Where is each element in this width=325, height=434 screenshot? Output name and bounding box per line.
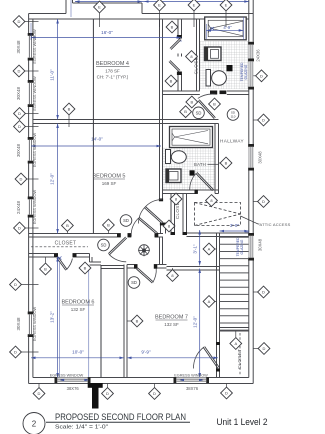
svg-text:BATH: BATH: [194, 162, 206, 167]
keynote diamond B: [63, 103, 75, 115]
egress window 38X76 bedroom 6: [55, 377, 91, 383]
door: bath 2: [190, 173, 197, 190]
blue tick at closet door: [58, 257, 62, 260]
bath 1 toilet: [206, 70, 211, 87]
egress window 30X48 bedroom 5 upper: [28, 137, 34, 164]
door: bedroom 7 entry: [153, 269, 156, 283]
door leaf bedroom 7: [136, 268, 153, 283]
keynote diamond B: [62, 220, 74, 232]
interior wall H: stairs south / closet north: [220, 327, 249, 329]
interior wall B: bedroom 4/5 divider + bath2 north: [33, 119, 219, 121]
svg-text:30X48: 30X48: [16, 143, 21, 157]
keynote diamond D: [258, 196, 270, 208]
keynote diamond D: [10, 279, 22, 291]
svg-text:D: D: [18, 226, 21, 231]
svg-text:E: E: [193, 3, 196, 8]
door leaf bath 2: [196, 172, 214, 190]
fan/light combo circle hallway: [227, 109, 239, 121]
svg-text:A: A: [208, 247, 211, 252]
interior wall A stub between doors: [160, 223, 162, 234]
svg-text:169 SF: 169 SF: [102, 181, 117, 186]
svg-text:D: D: [260, 73, 263, 78]
bath 1 tiled floor: [200, 41, 249, 89]
door leaf bedroom 6: [108, 237, 126, 255]
interior walls J: bath 2 east + south: [214, 124, 216, 194]
keynote diamond B: [103, 219, 115, 231]
interior walls K: top closet strip: [177, 19, 179, 91]
keynote diamond D: [14, 108, 26, 120]
door: hall at closet (swings up-left): [131, 218, 138, 237]
svg-text:B: B: [190, 100, 193, 105]
tempered window bath 1: [248, 59, 254, 90]
bath 1 tub dimension 4'-9": [207, 29, 244, 31]
interior wall A lower: y237-265: [159, 237, 161, 265]
keynote diamond D: [15, 173, 27, 185]
svg-text:D: D: [106, 391, 109, 396]
svg-text:132 SF: 132 SF: [164, 322, 179, 327]
svg-text:178 SF: 178 SF: [105, 69, 120, 74]
section mark black L: [88, 383, 103, 388]
svg-text:EGRESS WINDOW: EGRESS WINDOW: [50, 373, 84, 377]
smoke detector SD: [128, 277, 140, 289]
svg-text:12'-0": 12'-0": [50, 173, 55, 185]
interior wall: closet band south: [29, 253, 54, 255]
svg-text:E: E: [158, 3, 161, 8]
attic access pull-down (dashed): [195, 203, 241, 226]
svg-text:Scale: 1/4" = 1'-0": Scale: 1/4" = 1'-0": [55, 425, 108, 431]
svg-text:A: A: [208, 299, 211, 304]
svg-text:E: E: [98, 5, 101, 10]
wall opening jambs: bed7 closet door: [216, 342, 220, 345]
egress window 38X76 bedroom 7: [174, 377, 210, 383]
svg-text:GLAZING: GLAZING: [240, 239, 244, 254]
svg-text:B: B: [136, 319, 139, 324]
interior walls I: linen closet: [170, 194, 172, 236]
svg-text:10'-0": 10'-0": [72, 349, 84, 354]
keynote diamond A: [203, 243, 215, 255]
ceiling fan symbol: [138, 245, 150, 257]
svg-text:2: 2: [32, 420, 37, 429]
svg-text:SD: SD: [196, 110, 202, 115]
svg-text:38X76: 38X76: [186, 386, 199, 391]
window 24X36 bath 1 upper: [248, 42, 254, 62]
svg-text:D: D: [38, 391, 41, 396]
interior wall C: bedroom5 south / closet north: [29, 233, 117, 235]
dim 9'-9" bedroom 7 width: [127, 357, 218, 359]
svg-text:ATTIC ACCESS: ATTIC ACCESS: [260, 222, 291, 227]
svg-text:B: B: [213, 102, 216, 107]
exterior wall: left: [28, 14, 30, 384]
svg-text:B: B: [66, 223, 69, 228]
bath 1 sink vanity: [205, 47, 222, 61]
exterior wall: bottom: [29, 383, 254, 385]
svg-text:13'-2": 13'-2": [50, 311, 55, 323]
door: bedroom 6 vestibule: [109, 254, 126, 262]
svg-text:24X36: 24X36: [256, 49, 261, 62]
door leaf hallway: [198, 100, 215, 119]
svg-text:CLOSET: CLOSET: [55, 241, 77, 247]
svg-text:30X48: 30X48: [258, 151, 263, 164]
bifold door upper: [170, 38, 181, 49]
tempered window 30X48 stairs: [248, 233, 254, 261]
keynote diamond B: [79, 262, 91, 274]
svg-text:PROPOSED SECOND FLOOR PLAN: PROPOSED SECOND FLOOR PLAN: [55, 411, 186, 422]
door leaf bedroom 6 closet: [57, 257, 67, 270]
door leaf bedroom 5: [144, 207, 163, 224]
svg-text:E: E: [225, 3, 228, 8]
svg-text:EGRESS WINDOW: EGRESS WINDOW: [174, 373, 208, 377]
interior wall E: bedroom 6/7 divider: [123, 265, 125, 378]
keynote diamond 8: [167, 270, 179, 282]
interior wall F: bedroom 7 north: [127, 264, 134, 266]
dim 10'-0" bedroom 6 width: [31, 357, 124, 359]
svg-text:D: D: [153, 391, 156, 396]
bifold door lower: [169, 60, 180, 71]
bath 2 sink vanity: [166, 169, 181, 183]
title circle 2: [23, 413, 45, 434]
bath 1 bathtub: [205, 17, 247, 40]
svg-text:SD: SD: [123, 218, 129, 223]
partition line x93 (unit separation upper): [92, 19, 94, 234]
svg-text:30X48: 30X48: [16, 86, 21, 100]
exterior wall: top: [29, 13, 66, 15]
svg-text:B: B: [68, 107, 71, 112]
svg-text:24X48: 24X48: [16, 200, 21, 214]
keynote diamond B: [165, 75, 177, 87]
bath1 door threshold bars: [210, 91, 217, 95]
svg-text:9'-9": 9'-9": [141, 349, 151, 354]
smoke detector SD: [98, 239, 110, 251]
dim 12'-0" bedroom 7 height: [199, 269, 201, 378]
dim 3'-1" stairs landing: [199, 230, 201, 266]
egress window 30X48 bedroom 6: [28, 312, 34, 338]
svg-text:38X76: 38X76: [67, 386, 80, 391]
svg-text:SD: SD: [131, 280, 137, 285]
top cut dimension line: [75, 1, 249, 3]
keynote diamond B: [131, 315, 143, 327]
diamond leader lines: [25, 21, 39, 23]
svg-text:11'-0": 11'-0": [50, 69, 55, 81]
svg-text:D: D: [14, 282, 17, 287]
closet rod dashed line: [31, 246, 88, 248]
svg-text:Unit 1 Level 2: Unit 1 Level 2: [217, 417, 268, 427]
svg-text:CLOSET: CLOSET: [237, 349, 242, 369]
keynote diamond B: [166, 21, 178, 33]
svg-text:D: D: [18, 69, 21, 74]
keynote diamond E: [154, 0, 166, 11]
dim 16'-0" bedroom 4 width: [31, 37, 181, 39]
smoke detector SD: [120, 215, 132, 227]
keynote diamond D: [256, 70, 268, 82]
egress window 30X48 bedroom 4 lower: [28, 80, 34, 107]
svg-text:D: D: [263, 346, 266, 351]
svg-text:30X48: 30X48: [258, 238, 263, 251]
interior wall A: bedrooms east wall: [159, 19, 161, 201]
svg-text:B: B: [184, 109, 187, 114]
svg-text:4'-9": 4'-9": [223, 25, 232, 30]
svg-text:12'-0": 12'-0": [192, 316, 197, 328]
exterior wall: right main: [252, 0, 254, 384]
keynote diamond D: [14, 222, 26, 234]
door leaf bedroom 7 closet: [203, 347, 219, 369]
bath 2 toilet: [166, 150, 171, 164]
svg-text:EGRESS WINDOW: EGRESS WINDOW: [32, 132, 37, 167]
svg-text:EGRESS WINDOW: EGRESS WINDOW: [32, 306, 37, 341]
svg-text:D: D: [20, 177, 23, 182]
bath 1 floor drain: [227, 65, 233, 71]
egress window 30X48 bedroom 4 upper: [28, 33, 34, 61]
egress window 24X48 bedroom 5 lower: [28, 197, 34, 218]
svg-text:D: D: [262, 199, 265, 204]
dim extension stub right wall: [245, 231, 249, 233]
dim 13'-2" bedroom 6 height: [57, 257, 59, 378]
svg-text:B: B: [44, 267, 47, 272]
dim 11'-0" bedroom 4 height: [57, 19, 59, 120]
keynote diamond E: [94, 1, 106, 13]
keynote diamond 8: [186, 51, 198, 63]
svg-text:16'-0": 16'-0": [101, 30, 113, 35]
svg-text:EGRESS WINDOW: EGRESS WINDOW: [32, 76, 37, 111]
keynote diamond D: [221, 387, 233, 399]
keynote diamond A: [230, 338, 242, 350]
svg-text:B: B: [225, 161, 228, 166]
svg-text:D: D: [18, 124, 21, 129]
svg-text:EGRESS WINDOW: EGRESS WINDOW: [32, 189, 37, 224]
keynote diamond E: [220, 0, 232, 11]
svg-text:D: D: [262, 290, 265, 295]
door: bedroom 5 (swings into bedroom): [139, 200, 163, 224]
bath 2 tiled floor: [163, 148, 215, 191]
svg-text:D: D: [18, 19, 21, 24]
dim 14'-0" bedroom 5 width: [31, 145, 161, 147]
svg-text:GLAZING: GLAZING: [244, 64, 248, 79]
keynote diamond D: [258, 343, 270, 355]
svg-text:B: B: [84, 266, 87, 271]
keynote diamond D: [102, 388, 114, 400]
svg-text:3'-0": 3'-0": [230, 223, 240, 228]
keynote diamond D: [33, 388, 45, 400]
keynote diamond D: [14, 121, 26, 133]
closet K door openings: [177, 36, 182, 54]
keynote diamond D: [149, 388, 161, 400]
keynote diamond D: [258, 286, 270, 298]
interior wall: stairs north: [187, 232, 249, 234]
svg-text:HALLWAY: HALLWAY: [220, 138, 244, 143]
staircase treads: [220, 237, 249, 330]
svg-text:110: 110: [231, 115, 236, 119]
door: bedroom 7 closet: [193, 347, 204, 369]
keynote diamond D: [258, 114, 270, 126]
svg-text:3'-1": 3'-1": [192, 244, 197, 254]
keynote diamond B: [209, 98, 221, 110]
svg-text:SD: SD: [101, 243, 107, 248]
keynote diamond 8: [170, 193, 182, 205]
interior wall: bath 1 south: [163, 90, 249, 92]
svg-text:D: D: [262, 118, 265, 123]
svg-text:14'-0": 14'-0": [91, 137, 103, 142]
keynote diamond B: [186, 96, 198, 108]
keynote diamond B: [220, 157, 232, 169]
svg-text:D: D: [18, 111, 21, 116]
dim 12'-0" bedroom 5 height: [57, 124, 59, 234]
svg-text:30X48: 30X48: [16, 40, 21, 54]
keynote diamond 8: [163, 220, 175, 232]
svg-text:B: B: [170, 79, 173, 84]
bottom window dim extension lines: [59, 262, 61, 377]
keynote diamond 8: [206, 195, 218, 207]
interior wall: bedroom 6 north alcove: [89, 254, 91, 263]
door: hallway near stairs top: [198, 94, 216, 98]
keynote diamond D: [13, 65, 25, 77]
closet door (bedroom 6 closet): [66, 259, 72, 270]
interior wall G: stairs west: [216, 233, 218, 342]
keynote diamond B: [180, 106, 192, 118]
closet rod dashed: [239, 333, 241, 376]
keynote diamond E: [188, 0, 200, 11]
svg-text:B: B: [171, 25, 174, 30]
svg-text:132 SF: 132 SF: [71, 307, 86, 312]
partition line x102.5 (bedroom 6 closet line): [100, 265, 102, 378]
svg-text:EGRESS WINDOW: EGRESS WINDOW: [32, 29, 37, 64]
keynote diamond D: [13, 16, 25, 28]
bath 2 bathtub: [170, 127, 213, 148]
smoke detector SD: [193, 107, 205, 119]
top dim extension lines: [70, 0, 72, 17]
window 30X48 hallway: [248, 144, 254, 171]
bath 2 floor drain: [190, 170, 195, 175]
keynote diamond D: [10, 346, 22, 358]
svg-text:D: D: [14, 350, 17, 355]
svg-text:B: B: [107, 223, 110, 228]
svg-text:CH: 7'-1" (TYP.): CH: 7'-1" (TYP.): [97, 75, 129, 80]
keynote diamond B: [40, 263, 52, 275]
keynote diamond A: [203, 296, 215, 308]
door leaf hall closet: [138, 217, 157, 234]
svg-text:D: D: [225, 391, 228, 396]
dim 3'-0" stairs width: [220, 230, 249, 232]
attic access leader + label: [241, 216, 259, 224]
svg-text:30X48: 30X48: [16, 317, 21, 331]
interior wall G2: closet west below stairs: [216, 342, 218, 378]
svg-text:A: A: [234, 341, 237, 346]
